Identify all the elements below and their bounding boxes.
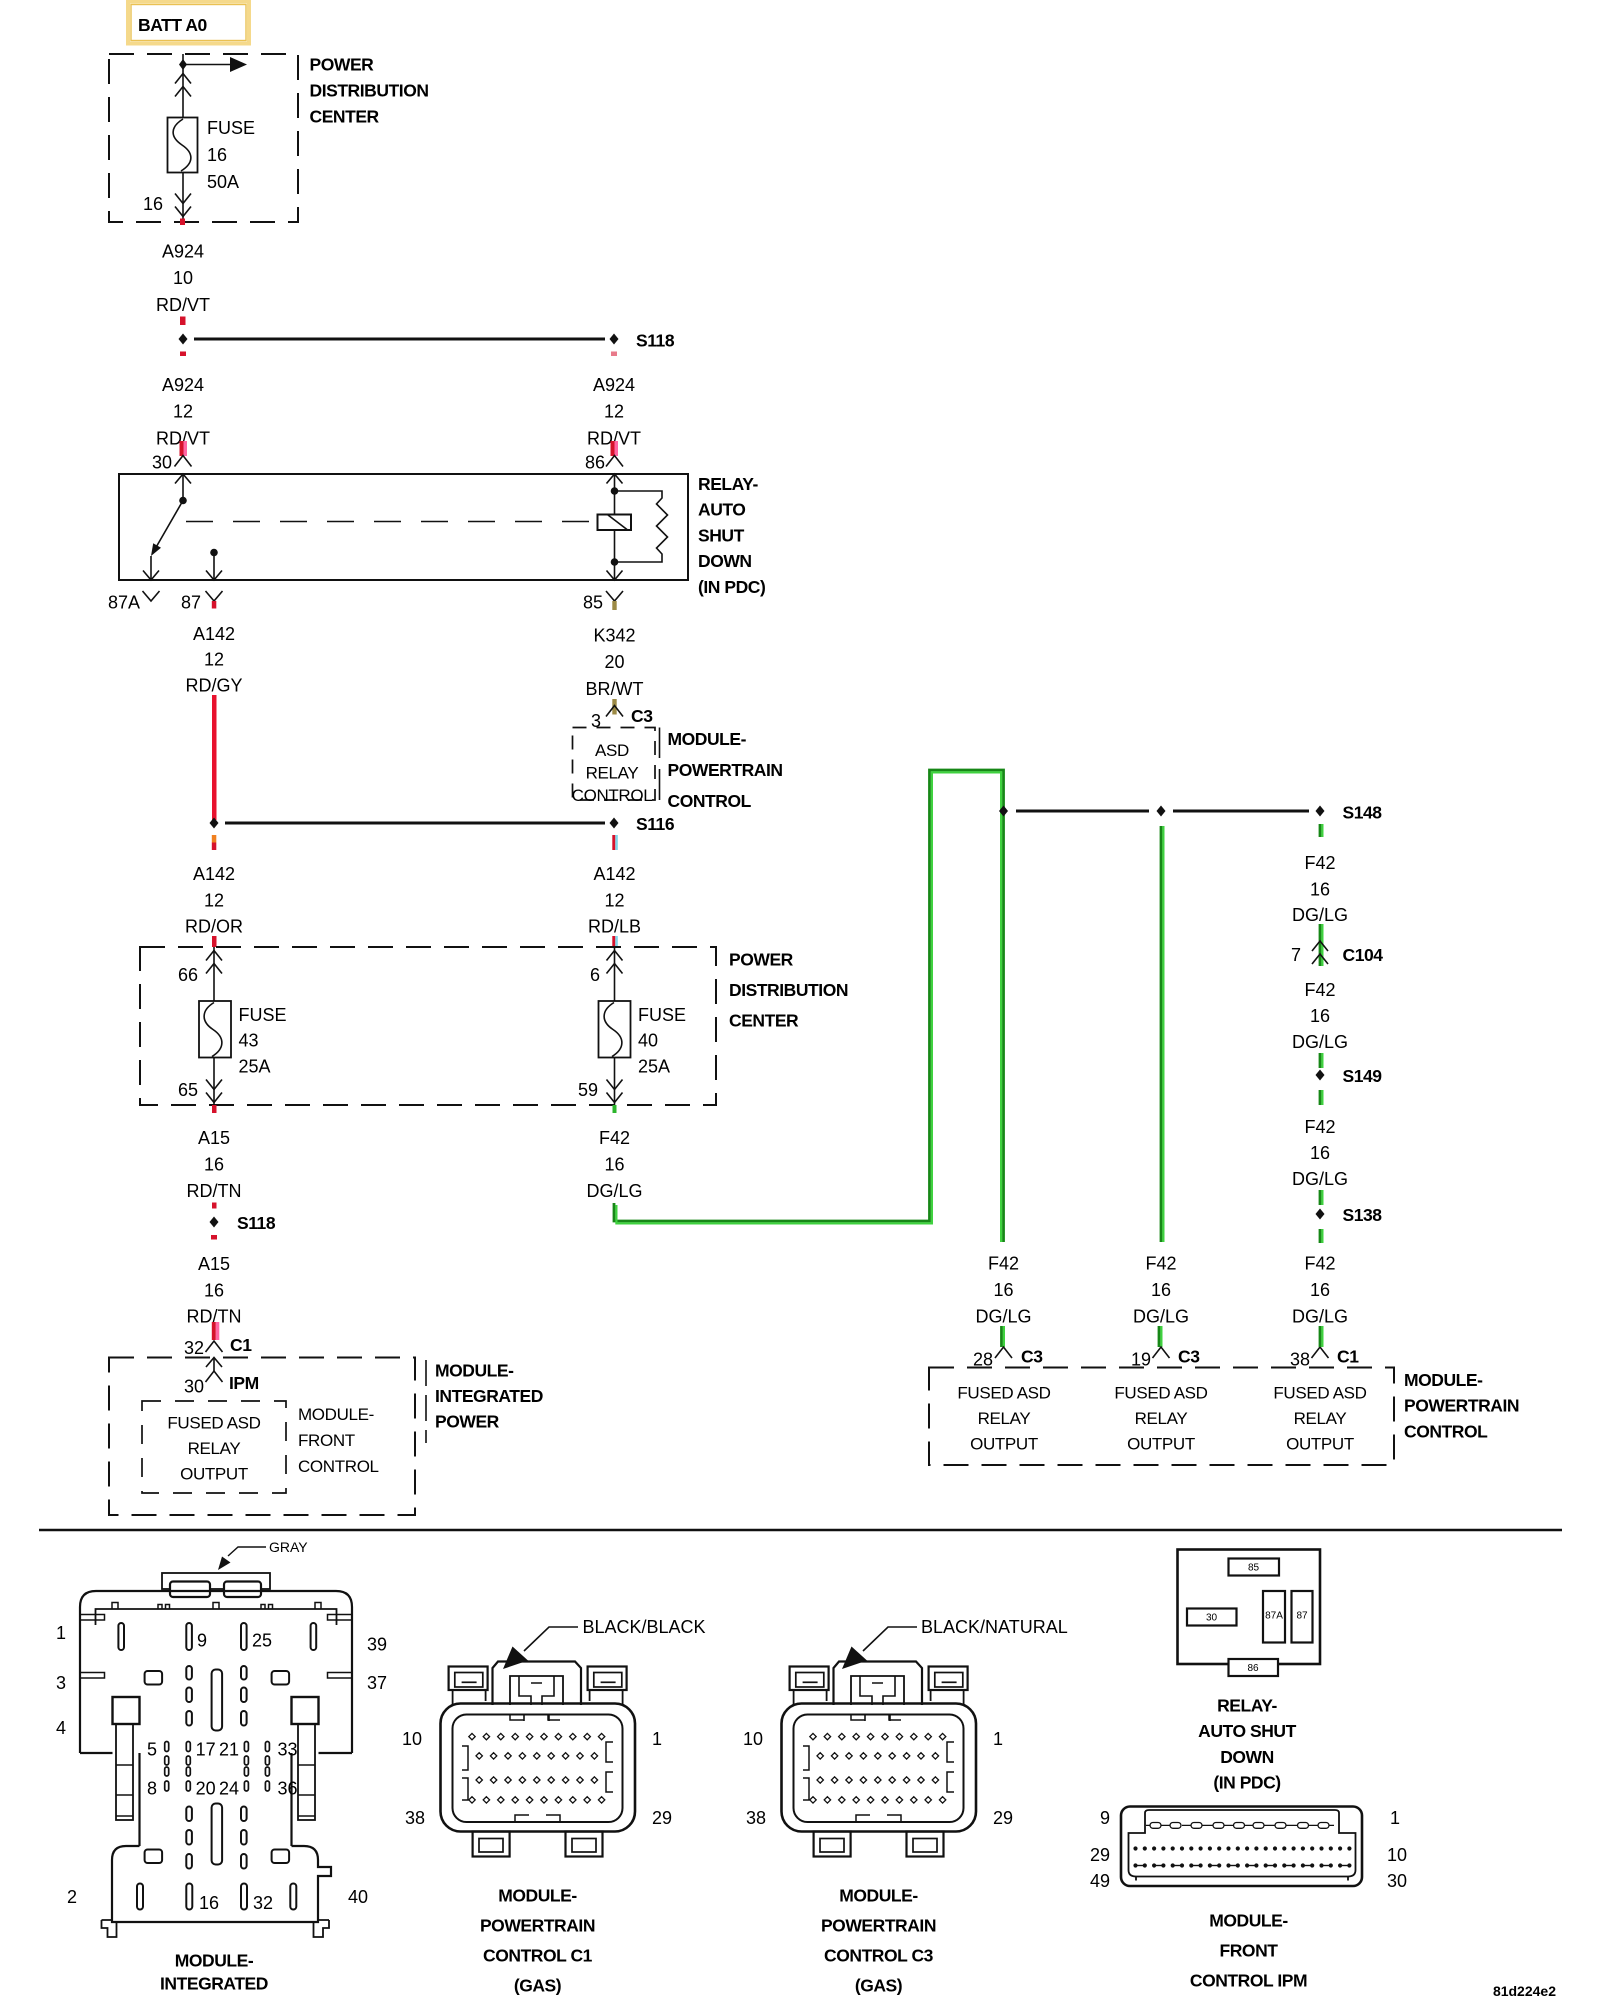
svg-text:29: 29 <box>652 1808 672 1828</box>
svg-text:POWER: POWER <box>310 55 375 75</box>
svg-text:C1: C1 <box>230 1335 252 1355</box>
svg-text:(GAS): (GAS) <box>855 1976 902 1996</box>
svg-text:A15: A15 <box>198 1254 230 1274</box>
svg-text:S148: S148 <box>1343 803 1383 823</box>
svg-text:CENTER: CENTER <box>310 107 380 127</box>
svg-text:CONTROL IPM: CONTROL IPM <box>1190 1971 1307 1991</box>
svg-text:16: 16 <box>207 145 227 165</box>
svg-text:20: 20 <box>604 652 624 672</box>
svg-text:6: 6 <box>590 965 600 985</box>
svg-text:21: 21 <box>219 1740 239 1760</box>
svg-text:RELAY: RELAY <box>1294 1409 1347 1428</box>
svg-text:MODULE-: MODULE- <box>498 1886 577 1906</box>
svg-text:FRONT: FRONT <box>298 1431 355 1450</box>
svg-text:POWERTRAIN: POWERTRAIN <box>668 760 783 780</box>
svg-text:F42: F42 <box>1304 853 1335 873</box>
svg-text:RD/GY: RD/GY <box>185 676 242 696</box>
svg-text:16: 16 <box>1310 1280 1330 1300</box>
svg-text:87: 87 <box>181 593 201 613</box>
svg-text:30: 30 <box>184 1377 204 1397</box>
svg-text:81d224e2: 81d224e2 <box>1493 1983 1556 1999</box>
svg-text:87A: 87A <box>108 593 140 613</box>
svg-text:8: 8 <box>147 1779 157 1799</box>
svg-text:12: 12 <box>204 891 224 911</box>
svg-text:25A: 25A <box>239 1057 271 1077</box>
svg-text:87: 87 <box>1296 1611 1308 1622</box>
svg-text:49: 49 <box>1090 1871 1110 1891</box>
svg-text:C104: C104 <box>1343 945 1384 965</box>
svg-text:32: 32 <box>184 1338 204 1358</box>
svg-text:A142: A142 <box>193 864 235 884</box>
svg-text:20: 20 <box>196 1779 216 1799</box>
svg-text:25A: 25A <box>638 1057 670 1077</box>
svg-text:7: 7 <box>1291 945 1301 965</box>
svg-text:MODULE-: MODULE- <box>298 1405 374 1424</box>
svg-text:25: 25 <box>252 1631 272 1651</box>
svg-text:MODULE-: MODULE- <box>1209 1911 1288 1931</box>
svg-text:S118: S118 <box>237 1213 276 1233</box>
svg-text:CONTROL: CONTROL <box>572 786 653 805</box>
svg-text:1: 1 <box>1390 1808 1400 1828</box>
svg-text:43: 43 <box>239 1031 259 1051</box>
svg-text:CONTROL: CONTROL <box>1404 1421 1488 1441</box>
svg-text:10: 10 <box>1387 1845 1407 1865</box>
svg-text:F42: F42 <box>1145 1254 1176 1274</box>
svg-text:16: 16 <box>1310 1143 1330 1163</box>
svg-text:DOWN: DOWN <box>1220 1747 1274 1767</box>
svg-text:FUSE: FUSE <box>239 1005 287 1025</box>
svg-text:DG/LG: DG/LG <box>1292 905 1348 925</box>
svg-text:RELAY-: RELAY- <box>1217 1696 1277 1716</box>
svg-text:16: 16 <box>1151 1280 1171 1300</box>
svg-text:A924: A924 <box>593 375 635 395</box>
svg-text:DOWN: DOWN <box>698 551 752 571</box>
svg-text:FUSED ASD: FUSED ASD <box>1273 1384 1366 1403</box>
svg-text:ASD: ASD <box>595 741 629 760</box>
svg-text:DISTRIBUTION: DISTRIBUTION <box>729 980 848 1000</box>
svg-text:SHUT: SHUT <box>698 525 745 545</box>
svg-text:RELAY-: RELAY- <box>698 474 758 494</box>
svg-text:30: 30 <box>1387 1871 1407 1891</box>
svg-text:FUSE: FUSE <box>207 118 255 138</box>
svg-text:RELAY: RELAY <box>586 764 639 783</box>
svg-text:BATT A0: BATT A0 <box>138 15 208 35</box>
svg-text:29: 29 <box>993 1808 1013 1828</box>
svg-text:C3: C3 <box>1178 1347 1200 1367</box>
svg-text:K342: K342 <box>593 626 635 646</box>
svg-text:MODULE-: MODULE- <box>435 1361 514 1381</box>
svg-text:AUTO SHUT: AUTO SHUT <box>1198 1721 1296 1741</box>
svg-text:RELAY: RELAY <box>1135 1409 1188 1428</box>
svg-text:50A: 50A <box>207 172 239 192</box>
svg-text:5: 5 <box>147 1740 157 1760</box>
svg-text:(GAS): (GAS) <box>514 1976 561 1996</box>
svg-text:F42: F42 <box>1304 1117 1335 1137</box>
svg-text:A924: A924 <box>162 242 204 262</box>
svg-text:38: 38 <box>405 1808 425 1828</box>
svg-text:RD/LB: RD/LB <box>588 917 641 937</box>
svg-text:FUSE: FUSE <box>638 1005 686 1025</box>
svg-text:POWER: POWER <box>435 1412 500 1432</box>
svg-text:40: 40 <box>348 1887 368 1907</box>
svg-text:IPM: IPM <box>229 1373 259 1393</box>
svg-text:16: 16 <box>143 194 163 214</box>
svg-text:MODULE-: MODULE- <box>1404 1370 1483 1390</box>
svg-text:F42: F42 <box>1304 980 1335 1000</box>
svg-text:16: 16 <box>204 1281 224 1301</box>
svg-text:RD/VT: RD/VT <box>156 295 210 315</box>
svg-text:CENTER: CENTER <box>729 1011 799 1031</box>
svg-text:MODULE-: MODULE- <box>668 729 747 749</box>
svg-text:10: 10 <box>173 268 193 288</box>
svg-text:30: 30 <box>1206 1613 1218 1624</box>
svg-text:FUSED ASD: FUSED ASD <box>167 1414 260 1433</box>
svg-text:POWERTRAIN: POWERTRAIN <box>480 1916 595 1936</box>
svg-text:16: 16 <box>204 1155 224 1175</box>
svg-text:(IN PDC): (IN PDC) <box>1213 1773 1280 1793</box>
svg-text:16: 16 <box>199 1893 219 1913</box>
svg-text:16: 16 <box>604 1155 624 1175</box>
svg-text:S116: S116 <box>636 814 675 834</box>
svg-text:16: 16 <box>993 1280 1013 1300</box>
svg-text:65: 65 <box>178 1080 198 1100</box>
svg-text:16: 16 <box>1310 1006 1330 1026</box>
svg-text:INTEGRATED: INTEGRATED <box>160 1974 268 1994</box>
svg-text:S138: S138 <box>1343 1205 1383 1225</box>
svg-text:INTEGRATED: INTEGRATED <box>435 1386 543 1406</box>
svg-text:F42: F42 <box>988 1254 1019 1274</box>
svg-text:37: 37 <box>367 1673 387 1693</box>
svg-text:59: 59 <box>578 1080 598 1100</box>
svg-text:DG/LG: DG/LG <box>975 1307 1031 1327</box>
svg-text:POWERTRAIN: POWERTRAIN <box>821 1916 936 1936</box>
svg-text:POWER: POWER <box>729 950 794 970</box>
svg-text:2: 2 <box>67 1887 77 1907</box>
svg-text:12: 12 <box>604 402 624 422</box>
svg-text:RELAY: RELAY <box>188 1439 241 1458</box>
svg-text:C3: C3 <box>631 706 653 726</box>
svg-text:(IN PDC): (IN PDC) <box>698 577 765 597</box>
svg-text:39: 39 <box>367 1635 387 1655</box>
svg-text:DG/LG: DG/LG <box>1292 1032 1348 1052</box>
svg-text:9: 9 <box>1100 1808 1110 1828</box>
svg-text:A924: A924 <box>162 375 204 395</box>
svg-text:MODULE-: MODULE- <box>839 1886 918 1906</box>
svg-text:12: 12 <box>604 891 624 911</box>
svg-text:32: 32 <box>253 1893 273 1913</box>
svg-text:A142: A142 <box>593 864 635 884</box>
svg-text:AUTO: AUTO <box>698 500 745 520</box>
svg-text:1: 1 <box>56 1623 66 1643</box>
svg-text:24: 24 <box>219 1779 239 1799</box>
svg-text:33: 33 <box>278 1740 298 1760</box>
svg-text:1: 1 <box>652 1729 662 1749</box>
svg-text:F42: F42 <box>1304 1254 1335 1274</box>
svg-text:POWERTRAIN: POWERTRAIN <box>1404 1396 1519 1416</box>
svg-text:FUSED ASD: FUSED ASD <box>1114 1384 1207 1403</box>
svg-text:FRONT: FRONT <box>1219 1941 1278 1961</box>
svg-text:86: 86 <box>585 453 605 473</box>
svg-text:RD/TN: RD/TN <box>187 1181 242 1201</box>
svg-text:40: 40 <box>638 1031 658 1051</box>
svg-text:OUTPUT: OUTPUT <box>1286 1435 1354 1454</box>
svg-text:29: 29 <box>1090 1845 1110 1865</box>
svg-text:RELAY: RELAY <box>978 1409 1031 1428</box>
svg-text:85: 85 <box>1248 1563 1260 1574</box>
svg-text:CONTROL C1: CONTROL C1 <box>483 1946 593 1966</box>
svg-text:BR/WT: BR/WT <box>586 679 644 699</box>
svg-text:12: 12 <box>204 650 224 670</box>
svg-text:1: 1 <box>993 1729 1003 1749</box>
svg-text:DG/LG: DG/LG <box>1292 1307 1348 1327</box>
svg-text:F42: F42 <box>599 1128 630 1148</box>
svg-text:C1: C1 <box>1337 1347 1359 1367</box>
svg-text:DG/LG: DG/LG <box>586 1181 642 1201</box>
svg-text:GRAY: GRAY <box>269 1539 308 1555</box>
svg-text:OUTPUT: OUTPUT <box>1127 1435 1195 1454</box>
svg-text:CONTROL: CONTROL <box>298 1457 379 1476</box>
svg-text:DG/LG: DG/LG <box>1133 1307 1189 1327</box>
svg-text:16: 16 <box>1310 880 1330 900</box>
svg-text:CONTROL C3: CONTROL C3 <box>824 1946 934 1966</box>
svg-text:36: 36 <box>278 1779 298 1799</box>
svg-text:38: 38 <box>746 1808 766 1828</box>
svg-text:BLACK/BLACK: BLACK/BLACK <box>583 1617 706 1637</box>
svg-text:RD/OR: RD/OR <box>185 917 243 937</box>
svg-text:BLACK/NATURAL: BLACK/NATURAL <box>921 1617 1068 1637</box>
svg-text:A15: A15 <box>198 1128 230 1148</box>
svg-text:S118: S118 <box>636 331 675 351</box>
svg-text:3: 3 <box>56 1673 66 1693</box>
svg-text:DG/LG: DG/LG <box>1292 1169 1348 1189</box>
svg-text:DISTRIBUTION: DISTRIBUTION <box>310 81 429 101</box>
svg-text:9: 9 <box>197 1631 207 1651</box>
svg-text:66: 66 <box>178 965 198 985</box>
svg-text:CONTROL: CONTROL <box>668 791 752 811</box>
svg-text:12: 12 <box>173 402 193 422</box>
svg-text:OUTPUT: OUTPUT <box>180 1465 248 1484</box>
svg-text:MODULE-: MODULE- <box>175 1951 254 1971</box>
svg-text:86: 86 <box>1247 1663 1259 1674</box>
svg-text:FUSED ASD: FUSED ASD <box>957 1384 1050 1403</box>
svg-text:87A: 87A <box>1265 1611 1283 1622</box>
svg-text:17: 17 <box>196 1740 216 1760</box>
svg-text:85: 85 <box>583 593 603 613</box>
svg-text:OUTPUT: OUTPUT <box>970 1435 1038 1454</box>
svg-text:S149: S149 <box>1343 1066 1383 1086</box>
svg-text:30: 30 <box>152 453 172 473</box>
svg-text:4: 4 <box>56 1718 66 1738</box>
svg-text:10: 10 <box>402 1729 422 1749</box>
svg-text:A142: A142 <box>193 624 235 644</box>
svg-text:10: 10 <box>743 1729 763 1749</box>
svg-text:C3: C3 <box>1021 1347 1043 1367</box>
